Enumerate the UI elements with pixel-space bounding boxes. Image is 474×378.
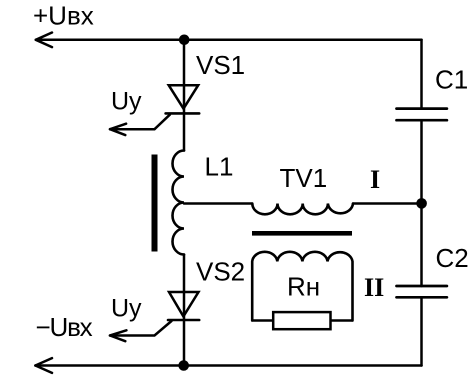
- svg-text:Rн: Rн: [287, 272, 320, 302]
- wire VS1 gate: [110, 115, 170, 130]
- wire VS1 anode: [183, 40, 186, 114]
- node junction bottom: [178, 360, 189, 371]
- transformer TV1 core bar: [252, 231, 352, 236]
- node junction top: [179, 35, 190, 46]
- capacitor C2: [397, 285, 447, 288]
- wire C1 to node: [420, 120, 423, 203]
- wire L1 to VS2: [183, 255, 186, 321]
- wire top bus: [36, 39, 422, 42]
- capacitor C1: [397, 107, 447, 110]
- wire TV1 primary to node: [353, 202, 422, 205]
- wire secondary to resistor: [253, 319, 272, 322]
- inductor L1: [173, 151, 185, 255]
- svg-text:TV1: TV1: [280, 163, 328, 193]
- svg-text:C1: C1: [435, 65, 468, 95]
- svg-text:VS2: VS2: [196, 257, 245, 287]
- svg-text:Uy: Uy: [111, 295, 142, 323]
- wire VS2 cathode to bottom bus: [183, 320, 186, 366]
- svg-text:I: I: [370, 165, 380, 194]
- svg-text:II: II: [364, 273, 384, 302]
- inductor L1 core bar: [152, 155, 158, 252]
- svg-text:+Uвх: +Uвх: [33, 1, 94, 31]
- wire VS2 gate: [110, 321, 172, 336]
- wire bottom bus: [35, 364, 421, 367]
- svg-text:L1: L1: [205, 152, 234, 182]
- node top-left arrow: [36, 33, 52, 48]
- node bottom-left arrow: [35, 358, 52, 373]
- svg-text:Uy: Uy: [111, 88, 142, 116]
- transformer TV1 primary winding I: [252, 204, 353, 215]
- svg-text:VS1: VS1: [196, 50, 245, 80]
- wire right bus upper: [420, 40, 423, 109]
- wire node to C2: [420, 204, 423, 287]
- thyristor VS2: [169, 292, 199, 316]
- transformer TV1 secondary winding II: [252, 252, 352, 321]
- wire VS1 cathode to L1: [183, 113, 186, 150]
- node junction right: [416, 198, 427, 209]
- resistor RH: [273, 312, 330, 329]
- thyristor VS1: [169, 85, 199, 108]
- wire C2 to bottom bus: [420, 297, 423, 365]
- svg-text:−Uвх: −Uвх: [36, 312, 93, 342]
- svg-text:C2: C2: [436, 243, 469, 273]
- wire L1 tap to TV1 primary: [184, 202, 252, 205]
